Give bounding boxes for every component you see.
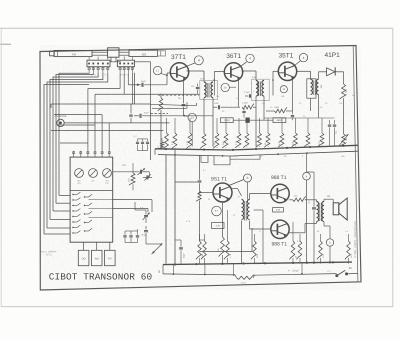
value label V3 220 xyxy=(191,85,195,88)
resistor ladder R13 1k xyxy=(213,118,219,148)
wire 951T1 collector to T4 xyxy=(231,189,242,197)
wire rail left drop xyxy=(154,149,156,155)
trimmer capacitor C3 xyxy=(113,168,150,175)
capacitor C14 input electro xyxy=(198,155,202,191)
resistor R30 emitter 951T1 xyxy=(217,237,224,264)
margin text xyxy=(354,221,357,258)
wire trimmer branch xyxy=(135,202,161,244)
wire 36T1 collector to T2 xyxy=(242,71,257,81)
wire 35T1 collector to T3 xyxy=(296,71,310,79)
pin number circle 5b xyxy=(326,239,333,246)
band box AM xyxy=(91,250,102,265)
value label V28 465 xyxy=(341,155,345,158)
value box 2,2k xyxy=(212,223,225,229)
wire U-loop A below rail xyxy=(201,155,208,162)
label 36T1 xyxy=(226,53,241,60)
capacitor C30 150uF xyxy=(288,268,299,272)
capacitor C17 block cluster xyxy=(129,231,132,243)
resistor R2 4,7k xyxy=(340,72,348,134)
capacitor C10 2,2uF xyxy=(244,91,256,98)
capacitor C1 padding xyxy=(129,104,133,123)
border frame xyxy=(40,46,361,291)
resistor ladder R18 1k xyxy=(264,118,270,147)
pin circle 13 xyxy=(184,113,196,121)
label 35T1 xyxy=(279,52,294,59)
volume control P2 xyxy=(339,134,348,147)
capacitor C15 output electro xyxy=(307,172,316,264)
value label V10 56k xyxy=(281,95,285,98)
border frame inner right line xyxy=(353,46,358,282)
value label V29 +9 xyxy=(260,155,263,158)
pin circle 16 xyxy=(280,86,287,93)
value label V20 4,7μ xyxy=(186,220,191,223)
capacitor C8 emitter bypass xyxy=(182,105,186,116)
switch block top pins xyxy=(73,151,111,157)
resistor ladder R12 1,2k xyxy=(186,118,192,149)
wire lower links xyxy=(175,210,349,240)
resistor ladder R22 470 xyxy=(318,118,324,146)
wire 36T1 emitter down xyxy=(238,78,240,108)
value label V1 47n xyxy=(167,107,171,110)
supply rail lower xyxy=(158,151,358,157)
switch block bottom leads xyxy=(84,242,110,250)
AGC dashed wire xyxy=(151,112,169,114)
band box PO xyxy=(105,250,116,265)
value label V21 2k xyxy=(208,198,211,201)
value label V11 2n xyxy=(299,102,302,105)
loudspeaker LS1 xyxy=(333,198,347,220)
switch contacts column A xyxy=(72,192,80,234)
oscillator transformer T1 xyxy=(200,78,213,149)
antenna coil box L3 xyxy=(87,60,110,66)
wire 37T1 base xyxy=(166,73,171,76)
wire U-loop B below rail xyxy=(214,156,230,165)
trimmer capacitor C5 5,6pF xyxy=(140,207,150,223)
value box 680 xyxy=(273,118,286,123)
wire supply vertical B xyxy=(174,150,176,264)
transistor 35T1 xyxy=(278,62,296,80)
pin circle 20 xyxy=(221,83,236,91)
resistor ladder R14 39k xyxy=(222,118,228,148)
value label V13 1,5n xyxy=(318,106,323,109)
volume potentiometer P1 xyxy=(152,243,163,254)
wire mesh h3 xyxy=(54,114,102,116)
wire 37T1 collector to T2 xyxy=(187,71,205,82)
value label V9 4n xyxy=(270,106,273,109)
title CIBOT TRANSONOR 60 xyxy=(49,272,153,283)
capacitor C9 10nF xyxy=(213,102,240,109)
page top edge xyxy=(0,27,393,29)
wire osc to gang xyxy=(184,93,200,95)
page left edge xyxy=(0,28,2,307)
wire 36T1 collector diag xyxy=(240,62,247,67)
switch block divider xyxy=(70,189,113,191)
transistor 36T1 xyxy=(224,63,242,81)
value label V14 40 xyxy=(325,102,328,105)
value box 5,6k xyxy=(273,208,284,212)
wire U-loop C below rail xyxy=(230,155,260,159)
capacitor C11 40uF xyxy=(328,120,331,147)
transistor 37T1 xyxy=(170,63,188,81)
output transformer T5 xyxy=(317,195,332,221)
transistor 98BT1 xyxy=(271,184,289,202)
wire T2 to 35T1 base xyxy=(272,71,278,95)
IF transformer T2 box xyxy=(252,79,270,100)
wire 37T1 emitter down xyxy=(183,78,185,103)
value label V22 32 xyxy=(233,214,236,217)
coil pin number labels xyxy=(91,74,129,77)
resistor ladder R11 4,7k xyxy=(171,118,177,149)
wire bundle into switch block xyxy=(44,195,70,234)
label 98BT1 xyxy=(271,175,287,181)
power switch S2 xyxy=(335,270,358,277)
wire 37T1 base feed xyxy=(128,73,167,87)
wire 951T1 emitter xyxy=(222,202,224,237)
value label V8 0,5 xyxy=(262,102,266,105)
value label V15 10n xyxy=(339,102,343,105)
wire T5 to speaker xyxy=(324,199,333,226)
IF transformer T2 xyxy=(252,76,264,146)
antenna coil box L4 pins xyxy=(119,63,134,73)
diode 41P1 xyxy=(319,67,344,79)
value label V19 0,1 xyxy=(203,169,207,172)
switch contacts column B xyxy=(84,194,92,231)
wire pin13 link xyxy=(192,122,197,147)
capacitor C2 57uF coupling xyxy=(134,112,213,118)
band box GO xyxy=(78,250,89,265)
value label V16 log xyxy=(352,94,356,97)
label DX xyxy=(123,164,127,167)
wire T1 to 36T1 base xyxy=(214,72,225,96)
resistor lower R47 470 xyxy=(317,153,325,264)
band switch block S1 xyxy=(70,157,113,242)
value box 1,2k xyxy=(220,118,233,123)
resistor ladder R19 6,8k xyxy=(278,118,284,147)
wire circle4 down xyxy=(306,180,308,264)
wire 951T1 base xyxy=(199,192,213,194)
resistor lower R44 100 xyxy=(251,153,259,264)
resistor ladder R17 4,7k xyxy=(256,118,262,148)
pin number circle near 35T1 xyxy=(299,53,307,61)
resistor ladder R20 10k xyxy=(292,118,298,147)
supply rail upper xyxy=(155,145,358,151)
resistor lower R45 1k xyxy=(289,153,297,264)
ferrite rod antenna L1 PO xyxy=(50,50,92,56)
wire mesh h2 xyxy=(51,73,197,160)
ferrite bead FB1 xyxy=(246,118,250,123)
label 41P1 xyxy=(325,52,341,59)
wire rail connector C xyxy=(233,264,235,276)
resistor R50 15ohm xyxy=(235,274,337,285)
value label V26 1,5 xyxy=(345,230,349,233)
driver transformer T4 xyxy=(238,195,250,264)
antenna coil box L3 pins xyxy=(88,63,109,73)
tuning trimmer CV1 xyxy=(75,169,84,186)
margin mark top left xyxy=(0,42,11,44)
wire mesh h5 xyxy=(51,130,164,132)
resistor lower R48 220 xyxy=(345,153,353,264)
antenna jack J1 xyxy=(57,119,64,126)
resistor R52 1k horizontal xyxy=(293,195,306,202)
wire rail connector D xyxy=(301,263,303,275)
page right edge xyxy=(392,28,394,307)
wire 35T1 collector diag xyxy=(294,61,300,66)
resistor ladder R21 xyxy=(304,118,310,147)
resistor ladder R10 47k xyxy=(163,118,169,149)
value label V24 0,1 xyxy=(297,240,301,243)
wire T4 center tap xyxy=(254,210,264,264)
wire rail connector A xyxy=(173,265,175,276)
capacitor C7 padder xyxy=(196,84,204,94)
resistor R51 output link xyxy=(289,199,292,201)
AGC dashed wire B xyxy=(158,94,199,96)
resistor lower R41 6,8k xyxy=(196,153,204,264)
wire AGC corner xyxy=(152,102,187,116)
wire box to bead xyxy=(233,119,246,121)
rod-to-coil tie bars xyxy=(89,56,132,60)
resistor R31 base bias xyxy=(196,191,201,241)
transistor 951T1 xyxy=(213,183,232,202)
wire supply vertical A xyxy=(165,155,167,264)
wire 98ST1 collector to T5 xyxy=(289,222,317,235)
trimmer capacitor C4 xyxy=(143,172,152,181)
resistor R1 470 xyxy=(128,163,135,190)
wire top bus 118 xyxy=(264,111,335,118)
pin circle BP xyxy=(212,206,222,216)
pin number circle near 37T1 xyxy=(194,56,203,65)
wire bead to box2 xyxy=(249,119,273,121)
resistor ladder R16 xyxy=(243,118,249,148)
value label V27 9 xyxy=(302,155,304,158)
capacitor C6 50pF xyxy=(141,226,148,238)
capacitor C13 5nF xyxy=(291,111,294,120)
label PL xyxy=(328,270,331,273)
value label V12 25 xyxy=(303,115,306,118)
wire circle5 to rail xyxy=(329,246,331,263)
capacitor C31 xyxy=(134,135,139,151)
wire antenna to mesh xyxy=(64,122,169,124)
capacitor C19 6,8uF xyxy=(242,108,245,118)
label 951T1 xyxy=(211,177,227,183)
wire link vB to cap xyxy=(175,181,198,183)
wire feedback line xyxy=(200,228,253,252)
value label V30 05 xyxy=(284,155,287,158)
antenna coil box L4 xyxy=(117,60,134,66)
pin number circle 4 xyxy=(303,153,311,180)
label 98 left xyxy=(158,270,161,273)
resistor R4 10k horizontal xyxy=(274,106,287,113)
wire 951T1 top xyxy=(229,180,244,186)
tuning gang block xyxy=(92,48,129,62)
capacitor C18 block cluster xyxy=(125,229,139,243)
tuning trimmer CV2 xyxy=(89,169,98,183)
resistor R9 47 small xyxy=(157,138,163,149)
wire 35T1 emitter down xyxy=(292,78,294,111)
value label V6 1n xyxy=(236,97,239,100)
pin number circle 6 xyxy=(244,174,252,200)
wire coil L4 to RF line xyxy=(135,62,163,149)
resistor lower R46 xyxy=(296,153,301,264)
capacitor C32 xyxy=(141,139,144,151)
capacitor C33 xyxy=(138,139,150,151)
switch contact bus lines xyxy=(89,200,113,218)
battery return line xyxy=(163,265,235,275)
label ANTENNE xyxy=(55,115,67,118)
ferrite rod antenna L2 GO xyxy=(129,50,166,56)
wire fan bundle xyxy=(44,73,108,234)
resistor ladder R15 2,2k xyxy=(235,118,241,148)
value label V18 250mW xyxy=(231,155,238,158)
wire mesh h1 xyxy=(95,93,200,95)
wire mesh verticals to block xyxy=(88,73,132,151)
wire r4 xyxy=(266,110,293,112)
wire 37T1 collector diag xyxy=(186,63,196,67)
value label V2 30p xyxy=(178,97,182,100)
ground rail xyxy=(163,261,352,265)
wire 98BT1 collector to T5 xyxy=(305,200,317,202)
value label V4 15k xyxy=(216,95,220,98)
wire T4 secondary top xyxy=(250,194,272,200)
wire T4 secondary bottom xyxy=(250,221,272,230)
wire speaker return xyxy=(324,226,330,239)
oscillator transformer T1 box xyxy=(200,81,218,100)
transistor 98ST1 xyxy=(271,220,289,238)
capacitor lower C20 50μF xyxy=(179,240,185,264)
value label V25 86 xyxy=(317,230,320,233)
capacitor C16 block cluster xyxy=(123,231,126,243)
resistor lower R43 4,7k xyxy=(224,153,232,264)
label 98ST1 xyxy=(272,241,288,247)
wire mesh h4 xyxy=(57,124,95,126)
wire mesh h6 xyxy=(60,142,88,144)
capacitor C12 40uF xyxy=(333,120,338,147)
wire block to AF xyxy=(113,196,152,212)
IF transformer T3 xyxy=(307,79,323,118)
value label V23 47 xyxy=(259,230,262,233)
value label V7 + xyxy=(253,90,255,93)
tuning trimmer CV3 xyxy=(103,169,112,186)
note text lower left xyxy=(41,250,57,256)
pin number circle 17 xyxy=(153,66,166,75)
pin number circle near 36T1 xyxy=(246,54,254,62)
resistor R3 2,2k horizontal xyxy=(242,102,256,109)
value label V5 90 xyxy=(222,110,225,113)
label 37T1 xyxy=(171,54,186,61)
page bottom edge xyxy=(1,306,393,308)
resistor lower R42 xyxy=(201,153,206,264)
wire rail connector B xyxy=(204,264,206,275)
label 9V xyxy=(349,267,352,270)
value label V17 12 xyxy=(169,154,172,157)
